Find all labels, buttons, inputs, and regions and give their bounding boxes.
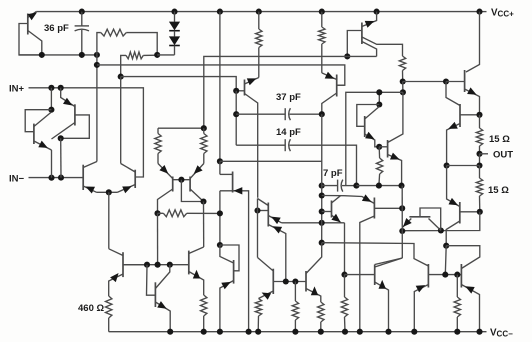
diode D1 anode lead	[174, 12, 176, 22]
transistor Q23 emitter	[155, 302, 170, 332]
transistor Q9 emitter arrow	[365, 132, 375, 139]
node Q21 emitter junction	[399, 228, 405, 234]
wire OUT to y=165.5	[479, 154, 481, 166]
capacitor C2 37pF plates	[284, 108, 286, 120]
resistor R8 top lead	[203, 128, 205, 133]
node rail junction x=414	[411, 329, 417, 335]
node rail junction x=204	[201, 329, 207, 335]
resistor R2 right lead	[143, 54, 157, 56]
node Q3 base loop junction	[58, 135, 64, 141]
wire OUT stub	[480, 153, 489, 155]
wire VCC+ rail stub to label	[480, 11, 487, 13]
transistor Q12 emitter	[190, 164, 204, 179]
node Q10 base junction	[376, 144, 382, 150]
wire y=128 mirror top wire	[158, 127, 204, 129]
node Q1 collector junction	[39, 52, 45, 58]
resistor R4 top lead	[321, 12, 323, 27]
capacitor C1 36pF top lead	[81, 12, 83, 26]
node Q17 base junction	[399, 205, 405, 211]
node R6 bottom junction	[376, 183, 382, 189]
wire x=97 bus	[96, 55, 98, 162]
transistor Q23 bar	[154, 282, 156, 307]
transistor Q14 emitter 1	[268, 216, 281, 223]
transistor Q10 emitter arrow	[390, 153, 400, 160]
resistor R14 bottom lead	[257, 316, 259, 332]
resistor R16 bottom lead	[320, 322, 322, 332]
node top rail junction at Q6 emitter	[374, 9, 380, 15]
diode D2 cathode lead	[174, 46, 176, 55]
node y=264.7 junction 2	[155, 262, 161, 268]
resistor R11 body	[476, 178, 482, 196]
wire x=257.5 to Q25	[258, 258, 274, 272]
node Q25 base junction 2	[292, 278, 298, 284]
wire VCC+ drop to Q18	[466, 12, 480, 72]
wire mirror base drop right	[444, 246, 447, 275]
transistor Q25 emitter arrow	[262, 293, 272, 300]
transistor Q8 emitter	[245, 78, 259, 85]
wire y=264.7 wire	[123, 264, 189, 266]
transistor Q21 bar	[409, 216, 430, 218]
node top rail junction at R 259	[256, 9, 262, 15]
wire y=222.8 wire	[282, 222, 345, 224]
svg-text:14 pF: 14 pF	[276, 127, 301, 138]
node Q9 collector junction a	[376, 89, 382, 95]
transistor Q12 emitter arrow	[194, 165, 203, 174]
resistor R5 bottom lead	[258, 48, 260, 78]
wire x=321.7 bus mid	[321, 114, 323, 243]
transistor Q25 emitter	[259, 291, 274, 299]
transistor Q16 collector	[189, 247, 204, 254]
node output 15ohm top junction	[476, 112, 482, 118]
transistor Q13 emitter line	[220, 191, 249, 332]
transistor Q13 collector tap	[220, 173, 233, 175]
resistor R3 bottom lead	[402, 71, 404, 82]
transistor Q18 emitter arrow	[467, 87, 477, 94]
resistor R10 body	[476, 128, 482, 146]
resistor R3 body	[399, 56, 405, 71]
wire Q27 base wire	[345, 274, 375, 276]
transistor Q27 collector	[375, 258, 403, 267]
transistor Q14 base	[258, 210, 269, 212]
wire x=220 bus	[219, 12, 221, 162]
wire x=402 to Q24 collector	[375, 258, 403, 265]
svg-text:15 Ω: 15 Ω	[489, 134, 510, 145]
transistor Q19 collector	[460, 114, 480, 116]
transistor Q11 collector	[158, 189, 173, 213]
transistor Q9 emitter	[365, 134, 380, 147]
node OUT junction	[476, 151, 482, 157]
transistor Q12 bar	[189, 177, 191, 192]
transistor Q5 emitter arrow	[122, 186, 132, 193]
wire diode bottom to node	[157, 54, 174, 56]
transistor Q6 collector 2	[362, 42, 377, 57]
transistor Q1 emitter to top rail	[28, 12, 36, 18]
resistor R13 body	[201, 295, 207, 316]
resistor R17 top lead	[344, 275, 346, 297]
node y=264.7 junction 1	[144, 262, 150, 268]
node 37pF left junction	[233, 111, 239, 117]
wire input pair common emitter	[97, 191, 118, 193]
transistor Q7 collector	[322, 93, 337, 114]
transistor Q24b emitter arrow	[221, 282, 231, 289]
node rail junction x=457	[454, 329, 460, 335]
transistor Q27 emitter	[375, 282, 389, 332]
transistor Q15 emitter	[332, 215, 342, 223]
transistor Q24b base loop	[220, 245, 239, 271]
node R1/R2/diode junction	[154, 52, 160, 58]
node rail junction x=220	[217, 329, 223, 335]
transistor Q1 emitter arrow	[28, 12, 37, 20]
transistor Q8 collector	[245, 94, 258, 198]
resistor R1 right lead	[126, 33, 157, 55]
transistor Q27 emitter arrow	[379, 280, 386, 289]
transistor Q10 bar	[387, 140, 389, 158]
resistor R7 bottom lead	[157, 154, 159, 164]
node top rail junction at x=220 bus	[217, 9, 223, 15]
node y=165.5 right junction	[476, 162, 482, 168]
node IN- tap 1	[48, 175, 54, 181]
transistor Q17 base	[374, 207, 402, 209]
transistor Q26 emitter arrow	[311, 286, 318, 295]
wire tail bus	[108, 192, 110, 249]
capacitor C1 36pF bottom lead	[81, 30, 83, 55]
resistor R8 body	[201, 134, 207, 154]
wire y=56 wire	[204, 56, 347, 128]
node mirror base junction right	[454, 272, 460, 278]
transistor Q20 emitter arrow	[449, 198, 459, 205]
transistor Q28 emitter	[414, 285, 428, 332]
diode D1 body	[169, 22, 180, 31]
node x=97 bus top junction	[94, 52, 100, 58]
transistor Q19 bar	[459, 104, 461, 127]
node diode Q21 junction	[438, 227, 444, 233]
transistor Q11 emitter arrow	[159, 165, 168, 174]
transistor Q14 emitter 2 arrow	[273, 226, 283, 233]
transistor Q7 emitter	[322, 73, 337, 80]
svg-text:460 Ω: 460 Ω	[78, 303, 104, 314]
wire node row y=55	[19, 54, 97, 56]
node second stage collector junction	[400, 89, 406, 95]
node IN+ tap 2	[58, 85, 64, 91]
node x=97 / y=65 junction	[94, 62, 100, 68]
wire y=185.6 wire	[356, 185, 401, 187]
wire y=245.7 wire	[446, 246, 480, 269]
transistor Q4 emitter	[83, 186, 96, 192]
wire Q23 base drop	[147, 265, 156, 296]
transistor Q8 emitter arrow	[247, 78, 257, 85]
resistor R4 body	[319, 27, 325, 44]
transistor Q6 emitter arrow	[365, 21, 375, 28]
transistor Q14 emitter 2	[268, 225, 286, 282]
svg-text:OUT: OUT	[493, 150, 513, 161]
transistor Q13 emitter arrow	[234, 187, 243, 194]
transistor Q6 collector 1	[362, 37, 403, 56]
transistor Q20 emitter	[447, 166, 460, 207]
wire x=203.5 drop to Q16	[203, 202, 205, 248]
transistor Q29 emitter arrow	[465, 286, 475, 293]
transistor Q10 emitter	[388, 155, 402, 186]
transistor Q15 bar	[331, 201, 333, 218]
transistor Q29 emitter	[461, 285, 479, 332]
svg-text:IN+: IN+	[9, 84, 25, 95]
transistor Q17 emitter	[344, 196, 374, 204]
wire y=243.5 wire	[322, 243, 429, 266]
node 36pF bottom junction	[79, 52, 85, 58]
transistor Q15 emitter arrow	[331, 214, 340, 222]
transistor Q21 emitter arrow	[403, 218, 412, 227]
node IN- tap 2	[58, 175, 64, 181]
wire Q20 collector loop	[402, 212, 480, 231]
node Q27 base junction	[341, 272, 347, 278]
svg-text:VCC+: VCC+	[491, 7, 514, 18]
transistor Q5 emitter	[118, 185, 136, 193]
resistor R16 body	[318, 302, 324, 322]
resistor R6 body	[376, 158, 382, 174]
capacitor C3 14pF left lead	[236, 144, 285, 146]
svg-text:15 Ω: 15 Ω	[488, 185, 509, 196]
node mirror base junction	[178, 177, 184, 183]
wire x=403 to y=92 node	[402, 82, 404, 93]
resistor R1 left lead	[97, 33, 101, 55]
transistor Q3 emitter arrow	[63, 98, 72, 106]
wire VCC+ top rail	[36, 11, 479, 13]
wire y=161 wire	[220, 160, 322, 162]
resistor R6 bottom lead	[378, 174, 381, 186]
transistor Q20 base	[446, 221, 460, 246]
node Q2 base/collector junction	[48, 107, 54, 113]
transistor Q28 emitter arrow	[416, 285, 426, 292]
node Q25 base junction 1	[283, 278, 289, 284]
resistor R18 top lead	[456, 275, 458, 297]
node rail junction x=258	[255, 329, 261, 335]
transistor Q18 bar	[464, 70, 466, 92]
wire bottom rail	[109, 331, 487, 333]
node R9 left junction	[154, 210, 160, 216]
wire y=65 long wire	[97, 65, 345, 85]
transistor Q17 bar	[373, 198, 375, 219]
wire x=257.5 bus	[257, 199, 259, 258]
diode D2 body	[174, 31, 176, 37]
resistor R18 bottom lead	[456, 317, 458, 332]
resistor R7 top lead	[157, 128, 159, 133]
node R3 bottom junction	[400, 78, 406, 84]
resistor R18 body	[454, 297, 460, 317]
transistor Q15 base	[322, 211, 332, 213]
svg-text:36 pF: 36 pF	[44, 23, 69, 34]
node x=402 y=185.6 junction	[398, 183, 404, 189]
transistor Q13 bar	[232, 172, 234, 193]
resistor R11 bottom lead	[479, 196, 481, 212]
svg-text:37 pF: 37 pF	[276, 92, 301, 103]
node IN+ tap 1	[48, 85, 54, 91]
capacitor C4 7pF plates	[337, 180, 339, 192]
transistor Q2 collector	[34, 112, 52, 127]
capacitor C3 14pF right lead	[290, 145, 357, 185]
transistor Q18 base	[446, 81, 465, 83]
transistor Q24b bar	[233, 260, 235, 284]
node 7pF left junction	[319, 183, 325, 189]
wire IN- lead	[29, 177, 84, 179]
transistor Q14 bar	[267, 203, 269, 227]
node x=220 R9 junction	[217, 210, 223, 216]
resistor R2 left lead	[121, 55, 126, 76]
transistor Q5 collector	[121, 164, 136, 173]
wire output base wire y=81.5	[403, 81, 446, 83]
resistor R9 right lead	[187, 212, 220, 214]
transistor Q10 collector	[388, 92, 403, 142]
node Q6 base/collector junction	[344, 53, 350, 59]
node rail junction x=479.5	[476, 329, 482, 335]
node x=321.7 y=211.5 junction	[319, 208, 325, 214]
transistor Q3 emitter	[61, 88, 75, 107]
wire Q2 emitter to IN-	[51, 150, 53, 178]
transistor Q28 bar	[427, 264, 429, 288]
node y=165.5 left junction	[444, 162, 450, 168]
transistor Q17 emitter arrow	[362, 194, 372, 202]
resistor R4 bottom lead	[321, 44, 323, 73]
transistor Q1 bar	[27, 14, 29, 35]
transistor Q8 bar	[244, 80, 246, 96]
wire Q15 emitter drop	[344, 223, 346, 275]
wire x=236 bus	[235, 91, 237, 145]
transistor Q7 bar	[336, 75, 338, 97]
transistor Q16 emitter arrow	[193, 270, 200, 279]
node R2 / y=77 junction	[118, 74, 124, 80]
transistor Q2 base loop	[25, 110, 51, 132]
node Q8 base junction	[233, 88, 239, 94]
node top rail junction at output collector	[476, 9, 482, 15]
transistor Q6 bar	[361, 23, 363, 45]
node rail junction x=321	[318, 329, 324, 335]
resistor R13 bottom lead	[203, 316, 205, 332]
node input pair tail junction	[106, 189, 112, 195]
node 37pF right junction	[319, 111, 325, 117]
resistor R15 top lead	[294, 282, 296, 302]
transistor Q3 collector	[52, 123, 75, 140]
wire x=121 bus	[120, 77, 122, 164]
transistor Q14 emitter 1 arrow	[271, 217, 281, 225]
transistor Q9 base loop	[357, 105, 380, 127]
node top rail junction at diode chain	[171, 9, 177, 15]
node rail junction x=170	[167, 329, 173, 335]
capacitor C4 7pF left lead	[322, 185, 338, 187]
transistor Q12 collector	[190, 189, 203, 202]
resistor R6 top lead	[378, 147, 380, 158]
capacitor C3 14pF plates	[284, 139, 286, 151]
transistor Q26 bar	[305, 271, 307, 292]
wire mirror base drop	[181, 180, 203, 202]
transistor Q7 emitter arrow	[325, 72, 335, 79]
wire x=402 bus lower	[401, 186, 403, 258]
transistor Q2 emitter arrow	[38, 141, 48, 148]
transistor Q24b collector	[220, 245, 234, 263]
resistor R14 body	[255, 299, 261, 317]
transistor Q1 base loop	[19, 24, 40, 55]
node output base junction	[443, 78, 449, 84]
transistor Q11 bar	[172, 177, 174, 192]
wire IN+ tap1 drop	[50, 88, 52, 110]
node top rail junction at 36pF	[79, 9, 85, 15]
resistor R15 body	[292, 301, 298, 320]
transistor Q19 emitter arrow	[448, 122, 458, 129]
transistor Q21 base loop	[420, 208, 441, 231]
node y=161 junction	[217, 158, 223, 164]
transistor Q29 bar	[460, 264, 462, 288]
resistor R11 top lead	[479, 166, 481, 179]
transistor Q22 emitter	[109, 274, 123, 296]
node Q12 collector junction	[200, 198, 206, 204]
wire mirror base wire	[428, 274, 461, 276]
transistor Q27 bar	[374, 265, 376, 286]
resistor R15 bottom lead	[294, 320, 296, 332]
transistor Q16 emitter	[189, 272, 204, 296]
wire x=220 bus mid upper	[219, 161, 221, 174]
resistor R5 top lead	[258, 12, 260, 29]
transistor Q22 bar	[122, 252, 124, 277]
transistor Q5 bar	[134, 170, 136, 188]
wire Q6 c2 tie	[347, 55, 376, 57]
node rail junction x=295	[292, 329, 298, 335]
resistor R7 body	[155, 134, 161, 154]
node Q20 collector junction	[477, 209, 483, 215]
node Q14 base junction	[254, 207, 260, 213]
transistor Q22 base	[123, 264, 147, 266]
wire y=195.5 wire	[322, 195, 344, 197]
transistor Q3 bar	[74, 104, 76, 125]
svg-text:IN−: IN−	[9, 174, 25, 185]
transistor Q9 collector	[365, 107, 380, 120]
svg-text:7 pF: 7 pF	[323, 168, 343, 179]
transistor Q18 emitter	[465, 89, 480, 115]
wire x=220 bus mid lower	[219, 191, 221, 245]
node mirror base junction left	[442, 272, 448, 278]
resistor R17 body	[341, 297, 347, 317]
transistor Q11 emitter	[158, 164, 173, 179]
node x=220 y=245 junction	[217, 242, 223, 248]
transistor Q25 bar	[272, 269, 274, 294]
capacitor C2 37pF left lead	[236, 113, 285, 115]
transistor Q4 collector	[83, 162, 97, 168]
resistor R9 body	[163, 210, 186, 217]
transistor Q3 base loop	[61, 115, 90, 138]
capacitor C4 7pF right lead	[342, 185, 356, 187]
resistor R8 bottom lead	[203, 154, 205, 164]
transistor Q21 collector	[429, 219, 441, 231]
wire Q19 base drop	[446, 82, 460, 106]
transistor Q23 emitter arrow	[157, 301, 167, 309]
transistor Q25 base	[273, 281, 306, 283]
transistor Q19 emitter	[447, 124, 460, 166]
resistor R12 bottom lead	[108, 318, 110, 332]
node y=264.7 junction 3	[167, 262, 173, 268]
node y=222.8 junction	[319, 220, 325, 226]
node rail junction x=359.8	[357, 329, 363, 335]
transistor Q17 collector	[360, 216, 375, 332]
transistor Q4 bar	[82, 165, 84, 190]
transistor Q14 collector	[258, 199, 269, 206]
node rail junction x=345	[342, 329, 348, 335]
transistor Q16 bar	[188, 251, 190, 275]
node x=321.7 y=242.7 junction	[319, 240, 325, 246]
transistor Q24b emitter	[220, 281, 234, 332]
transistor Q1 collector	[28, 31, 42, 55]
transistor Q22 emitter arrow	[110, 273, 119, 282]
node Q20 base junction	[443, 243, 449, 249]
resistor R10 top lead	[479, 115, 481, 128]
wire y=92 wire	[346, 92, 403, 185]
wire x=379 link	[378, 92, 380, 104]
transistor Q26 emitter	[306, 289, 321, 303]
